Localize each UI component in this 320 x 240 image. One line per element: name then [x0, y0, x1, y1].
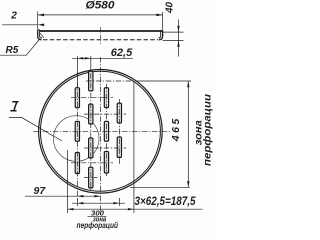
svg-text:R5: R5 [6, 45, 19, 56]
svg-text:40: 40 [165, 2, 176, 14]
svg-text:Ø580: Ø580 [86, 0, 116, 12]
svg-text:97: 97 [34, 185, 47, 197]
svg-text:465: 465 [170, 119, 182, 143]
svg-text:2: 2 [10, 11, 17, 22]
svg-text:перфораций: перфораций [77, 221, 119, 230]
svg-text:3×62,5=187,5: 3×62,5=187,5 [135, 194, 196, 208]
svg-text:перфорации: перфорации [202, 94, 214, 166]
svg-text:62,5: 62,5 [111, 47, 133, 59]
